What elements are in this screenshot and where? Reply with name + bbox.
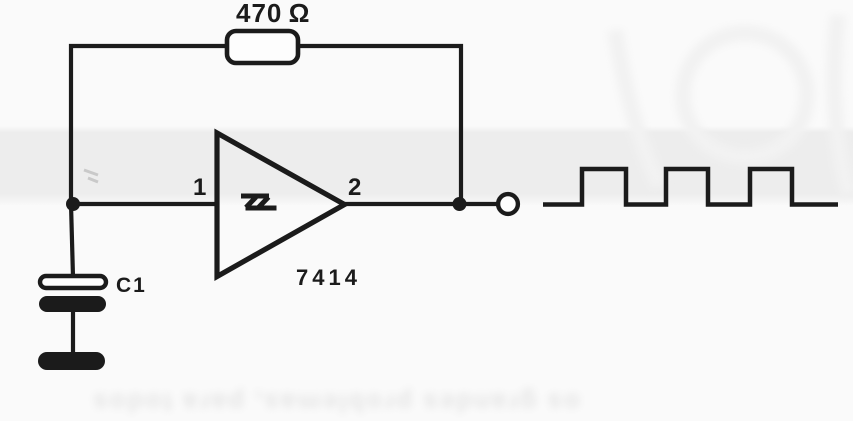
svg-text:2: 2	[348, 174, 361, 201]
wire: node A down to capacitor C1	[71, 204, 73, 277]
ground bar	[38, 352, 105, 370]
svg-text:7414: 7414	[296, 265, 361, 290]
wire: inverter output pin 2 to terminal	[344, 202, 497, 206]
wire: resistor to right vertical drop	[298, 46, 461, 204]
wire: input node A to inverter pin 1	[71, 202, 217, 206]
node B junction dot (feedback tap)	[453, 197, 467, 211]
svg-text:C1: C1	[116, 274, 147, 297]
node A junction dot	[66, 197, 80, 211]
svg-text:470 Ω: 470 Ω	[236, 0, 310, 28]
inverter U1 (7414 Schmitt trigger) triangle	[217, 133, 345, 277]
hysteresis symbol inside U1	[241, 196, 277, 208]
wire: feedback loop top-left (node A up, across to resistor)	[71, 46, 227, 206]
capacitor C1 top plate	[40, 276, 106, 288]
svg-text:os grandes problemas, para tod: os grandes problemas, para todos	[91, 388, 580, 418]
svg-text:1: 1	[193, 174, 206, 201]
output terminal (open circle)	[498, 194, 518, 214]
output waveform (square wave)	[543, 169, 838, 205]
capacitor C1 bottom plate	[39, 296, 106, 312]
resistor R 470Ω body	[227, 31, 298, 63]
wire: capacitor C1 to ground	[71, 312, 75, 354]
